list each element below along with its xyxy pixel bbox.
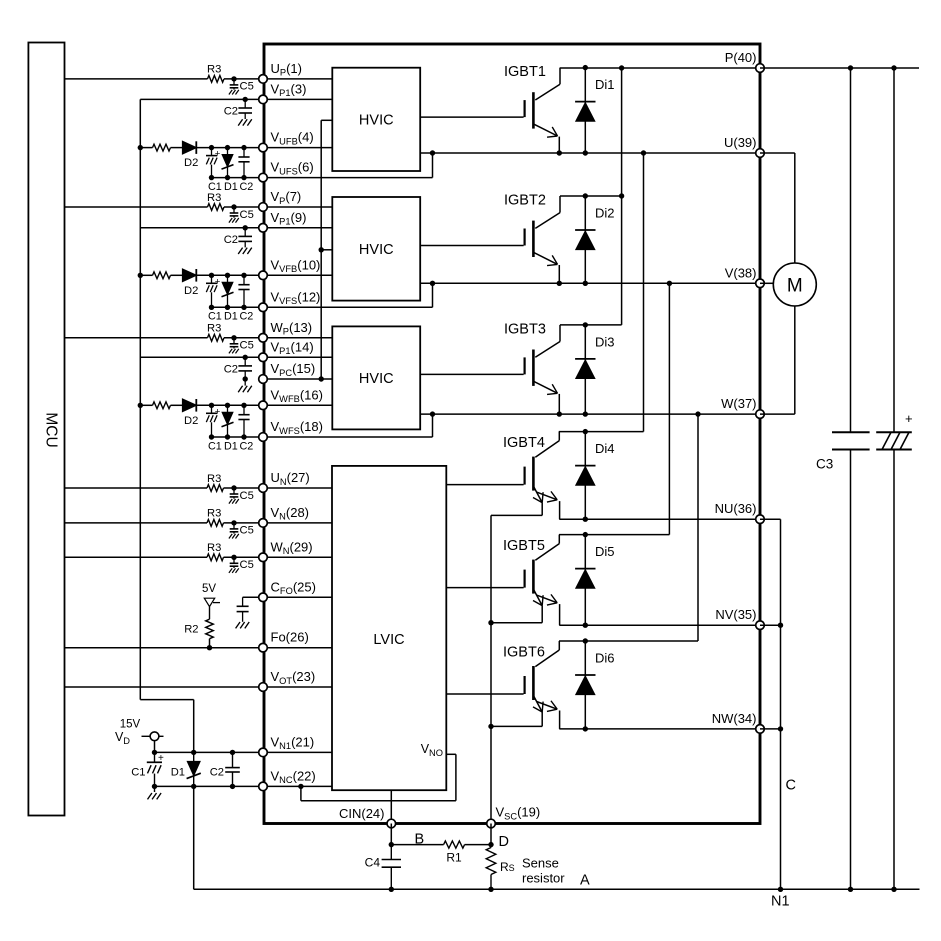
pin VP(7) (259, 203, 268, 212)
wire VP1 row to pin VP1(3) (140, 98, 263, 100)
junction Di4 anode (583, 517, 588, 522)
svg-text:VP1(14): VP1(14) (271, 339, 314, 356)
pin VWFB(16) (259, 401, 268, 410)
capacitor C4 (390, 845, 392, 860)
junction C2 tap (group 2) (243, 225, 248, 230)
pin VNC(22) (259, 782, 268, 791)
junction bottom col x211.5 (WFB group) (209, 434, 214, 439)
wire 15V bus vertical (139, 99, 141, 699)
wire bus to R (UFB row) (140, 147, 152, 149)
wire pin VVFB to HVIC2 (263, 274, 332, 276)
wire IGBT5 main emitter drop (559, 604, 561, 625)
junction Di6 cathode (583, 638, 588, 643)
svg-text:D1: D1 (224, 440, 238, 452)
svg-text:LVIC: LVIC (373, 632, 404, 648)
svg-text:C2: C2 (224, 105, 238, 117)
junction VSC bus / IGBT6 sense (488, 724, 493, 729)
ground (C5 VN row) (229, 534, 232, 539)
junction Di2 cathode (583, 193, 588, 198)
capacitor C5 (UP row) (233, 79, 235, 85)
wire IGBT6 sense emitter tail (541, 712, 543, 726)
svg-text:CFO(25): CFO(25) (271, 579, 316, 596)
capacitor C2 (group 3) (244, 357, 246, 365)
wire UFS row to pin VUFS(6) (212, 177, 264, 179)
junction D1 top on VN1 row (191, 750, 196, 755)
pin W(37) (756, 410, 765, 419)
wire MCU to R3 (WP row) (65, 337, 208, 339)
svg-text:C2: C2 (224, 234, 238, 246)
wire V rail (420, 282, 760, 284)
wire IGBT6 collector rail (559, 640, 698, 642)
junction bottom col x211.5 (VFB group) (209, 305, 214, 310)
ground (C5 UN row) (229, 499, 232, 504)
wire VN1 row external (155, 751, 264, 753)
svg-text:C1: C1 (208, 311, 222, 323)
pin VN(28) (259, 519, 268, 528)
diode Di3 (584, 325, 586, 414)
junction 15V bus / VFB row (138, 273, 143, 278)
wire 15V bus elbow horizontal (140, 699, 193, 701)
svg-text:VNC(22): VNC(22) (271, 768, 316, 785)
capacitor C5 (UN row) (233, 488, 235, 494)
svg-text:D2: D2 (184, 285, 198, 297)
svg-text:R3: R3 (207, 473, 221, 485)
capacitor C2 (UFB group, small) (243, 148, 245, 157)
wire NW(34) to C bus (760, 728, 781, 730)
wire bus to R (WFB row) (140, 404, 152, 406)
svg-text:Di5: Di5 (595, 544, 615, 559)
junction top col x227.5 (VFB group) (225, 273, 230, 278)
junction VUFS tap on U rail (430, 150, 435, 155)
wire U phase down to motor (794, 153, 796, 263)
svg-text:C5: C5 (240, 490, 254, 502)
junction VNC / VNO branch (298, 784, 303, 789)
junction top col x211.5 (VFB group) (209, 273, 214, 278)
svg-text:HVIC: HVIC (359, 242, 394, 258)
wire VPC bus vertical (320, 120, 322, 379)
wire VNO branch horizontal (301, 800, 456, 802)
wire pin VUFB to HVIC1 (263, 147, 332, 149)
svg-text:Di1: Di1 (595, 77, 615, 92)
wire IGBT4 main emitter drop (559, 501, 561, 519)
wire C3 branch lower (850, 450, 852, 890)
junction bottom col x244.0 (UFB group) (241, 175, 246, 180)
svg-text:Di4: Di4 (595, 441, 615, 456)
wire V drop to IGBT5 (668, 283, 670, 534)
svg-text:+: + (905, 411, 913, 426)
svg-text:R3: R3 (207, 192, 221, 204)
svg-text:IGBT3: IGBT3 (504, 321, 546, 337)
svg-text:UN(27): UN(27) (271, 470, 310, 487)
svg-text:R3: R3 (207, 323, 221, 335)
svg-text:HVIC: HVIC (359, 112, 394, 128)
ground (VPC row) (238, 386, 242, 392)
junction P rail / C3 (848, 65, 853, 70)
wire R to D2 (VFB row) (171, 274, 183, 276)
transistor IGBT6 (558, 641, 560, 650)
capacitor on CFO (242, 597, 244, 606)
svg-text:Sense: Sense (522, 856, 559, 871)
junction node D (488, 842, 493, 847)
svg-text:C2: C2 (240, 440, 254, 452)
junction VSC bus / IGBT5 sense (488, 620, 493, 625)
junction VPC bus / HVIC2 stub (319, 247, 324, 252)
ground (C5 WN row) (229, 568, 232, 573)
svg-text:MCU: MCU (43, 412, 60, 447)
wire VUFS tap vertical (432, 153, 434, 178)
svg-text:D: D (499, 834, 509, 850)
wire VD down to VN1 row (154, 741, 156, 753)
wire NV(35) to C bus (760, 624, 781, 626)
wire electrolytic branch lower (893, 450, 895, 890)
wire VVFS tap vertical (432, 283, 434, 307)
wire LVIC gate to IGBT6 (446, 693, 523, 695)
junction Di5 anode (583, 623, 588, 628)
ground (C5 UP row) (229, 90, 232, 95)
junction C2 top on VN1 row (230, 750, 235, 755)
svg-text:IGBT6: IGBT6 (503, 645, 545, 661)
junction bottom col x227.5 (VFB group) (225, 305, 230, 310)
wire P rail internal (560, 67, 760, 69)
svg-text:Di2: Di2 (595, 206, 615, 221)
junction C5 tap (WN row) (231, 555, 236, 560)
resistor R3 (UN row) (207, 485, 224, 492)
svg-text:M: M (787, 276, 803, 297)
wire B to R1 (391, 844, 443, 846)
IPM module outline (264, 44, 760, 824)
svg-text:IGBT5: IGBT5 (503, 538, 545, 554)
svg-text:C2: C2 (240, 311, 254, 323)
wire LVIC gate to IGBT4 (446, 484, 523, 486)
MCU block (28, 43, 64, 816)
svg-text:R2: R2 (184, 624, 198, 636)
wire U(39) to motor (760, 152, 795, 154)
junction C2 tap (group 3) (243, 355, 248, 360)
svg-text:5V: 5V (202, 583, 216, 595)
svg-text:+: + (215, 406, 221, 417)
junction bottom col x227.5 (UFB group) (225, 175, 230, 180)
junction top col x244.0 (UFB group) (241, 145, 246, 150)
resistor (UFB row, bootstrap) (153, 144, 171, 151)
wire VP1 row to pin VP1(9) (140, 227, 263, 229)
resistor (VFB row, bootstrap) (153, 272, 171, 279)
junction Di1 anode (583, 150, 588, 155)
pin UN(27) (259, 484, 268, 493)
wire IGBT4 sense emitter to VSC bus (491, 514, 542, 516)
svg-text:+: + (158, 753, 164, 764)
svg-text:R3: R3 (207, 542, 221, 554)
capacitor C2 (group 1) (244, 99, 246, 107)
wire R3 to pin VN(28) (224, 522, 264, 524)
junction P rail / drop (619, 65, 624, 70)
transistor IGBT5 (558, 535, 560, 544)
wire NU rail (559, 518, 760, 520)
wire R3 to pin VP(7) (224, 206, 263, 208)
IC HVIC1 (high-voltage gate driver) (332, 68, 420, 171)
wire MCU to R3 (VN row) (65, 522, 208, 524)
svg-text:R3: R3 (207, 508, 221, 520)
diode D2 (WFB row) (183, 399, 197, 412)
junction D1 bottom on VNC row (191, 784, 196, 789)
svg-text:D1: D1 (171, 767, 185, 779)
wire IGBT5 sense emitter tail (541, 606, 543, 623)
junction bottom rail / C3 (848, 887, 853, 892)
pin VP1(3) (259, 95, 268, 104)
svg-text:W(37): W(37) (721, 396, 756, 411)
pin P(40) (756, 64, 765, 73)
svg-text:R1: R1 (446, 851, 462, 865)
junction VPC bus / VPC row (319, 376, 324, 381)
wire VFS row to pin VVFS(12) (212, 306, 264, 308)
svg-text:+: + (215, 276, 221, 287)
svg-text:VP(7): VP(7) (271, 189, 302, 206)
motor M (773, 263, 816, 306)
svg-text:D2: D2 (184, 157, 198, 169)
zener diode D1 (VFB group) (227, 275, 229, 307)
capacitor electrolytic DC-link (876, 431, 912, 433)
wire 15V bus drop to VN1 (193, 700, 195, 753)
wire R3 to pin UP(1) (224, 78, 263, 80)
junction C2 bottom on VNC row (230, 784, 235, 789)
junction top col x244.0 (WFB group) (241, 403, 246, 408)
pin CFO(25) (259, 593, 268, 602)
junction IGBT1 emitter on rail (557, 150, 562, 155)
capacitor C1 (VFB group) (211, 275, 213, 283)
svg-text:Fo(26): Fo(26) (271, 630, 309, 645)
wire pin VP to HVIC2 (263, 206, 332, 208)
IC HVIC2 (high-voltage gate driver) (332, 197, 420, 301)
svg-text:VSC(19): VSC(19) (496, 805, 541, 822)
wire pin UN to LVIC (263, 487, 332, 489)
junction top col x227.5 (UFB group) (225, 145, 230, 150)
capacitor C5 (VP row) (233, 207, 235, 213)
ground (C5 VP row) (229, 218, 232, 223)
pin VWFS(18) (259, 433, 268, 442)
wire MCU to pin Fo(26) (65, 647, 264, 649)
svg-text:P(40): P(40) (725, 50, 757, 65)
pin NV(35) (756, 621, 765, 630)
wire U drop to IGBT4 (643, 153, 645, 432)
transistor IGBT3 (559, 325, 561, 342)
wire VWFS tap vertical (432, 414, 434, 437)
wire MCU to R3 (WN row) (65, 556, 208, 558)
pin VVFB(10) (259, 271, 268, 280)
svg-text:C2: C2 (210, 767, 224, 779)
wire P drop to IGBT2/3 (621, 68, 623, 325)
wire MCU to pin VOT(23) (65, 686, 264, 688)
wire R1 to D (465, 844, 491, 846)
diode D2 (UFB row) (183, 141, 197, 154)
svg-text:A: A (580, 873, 590, 889)
wire IGBT6 main emitter drop (559, 711, 561, 729)
resistor (WFB row, bootstrap) (153, 402, 171, 409)
wire C3 branch upper (850, 68, 852, 432)
capacitor C1 (UFB group) (211, 148, 213, 156)
resistor R3 (WN row) (207, 554, 224, 561)
wire CFO pin to filter cap (243, 596, 263, 598)
wire pin UP to HVIC1 (263, 78, 332, 80)
wire HVIC gate to IGBT1 (420, 116, 523, 118)
wire W phase up to motor (794, 306, 796, 414)
wire VP1 row to pin VP1(14) (140, 356, 263, 358)
pin VP1(9) (259, 224, 268, 233)
wire VNC drop to bottom rail (193, 786, 195, 889)
transistor IGBT4 (558, 432, 560, 441)
wire D2 to pin VUFB(4) (196, 147, 263, 149)
junction Di2 anode (583, 281, 588, 286)
junction NW / C bus (778, 726, 783, 731)
svg-text:resistor: resistor (522, 871, 565, 886)
wire HVIC1 VPC stub (321, 119, 332, 121)
wire D2 to pin VVFB(10) (196, 274, 263, 276)
junction bottom col x244.0 (VFB group) (241, 305, 246, 310)
junction VWFS tap on W rail (430, 411, 435, 416)
wire P(40) to DC bus (760, 67, 919, 69)
IC LVIC (low-voltage gate driver) (332, 466, 446, 790)
svg-text:C2: C2 (240, 181, 254, 193)
svg-text:Di3: Di3 (595, 334, 615, 349)
svg-text:15V: 15V (120, 719, 141, 731)
wire pin VP1(14) to HVIC3 (263, 356, 332, 358)
junction top col x211.5 (WFB group) (209, 403, 214, 408)
wire R3 to pin UN(27) (224, 487, 264, 489)
wire VNO branch down (300, 786, 302, 800)
wire VNC row external (155, 785, 264, 787)
transistor IGBT2 (559, 196, 561, 213)
svg-text:HVIC: HVIC (359, 371, 394, 387)
wire pin VN1 to LVIC (263, 751, 332, 753)
wire VNO branch up (455, 754, 457, 800)
junction bottom col x211.5 (UFB group) (209, 175, 214, 180)
wire IGBT2 collector rail (560, 195, 622, 197)
svg-text:D2: D2 (184, 415, 198, 427)
wire MCU to R3 (UP row) (65, 78, 208, 80)
svg-text:UP(1): UP(1) (271, 61, 302, 78)
capacitor C2 (15V rail) (232, 752, 234, 767)
svg-text:C3: C3 (816, 457, 833, 472)
junction U rail / U drop (641, 150, 646, 155)
svg-text:+: + (215, 149, 221, 160)
svg-text:C1: C1 (131, 767, 145, 779)
wire R2 to Fo row (209, 639, 211, 648)
wire C bus vertical (780, 519, 782, 889)
wire MCU to R3 (VP row) (65, 206, 208, 208)
wire 5V to R2 (209, 607, 211, 620)
junction Rs / bottom rail (488, 887, 493, 892)
resistor R1 (444, 841, 465, 848)
wire R3 to pin WN(29) (224, 556, 264, 558)
terminal VD (15V source) (142, 735, 151, 737)
junction C2 bottom on VPC row (243, 376, 248, 381)
ground (15V rail) (148, 793, 152, 799)
capacitor C2 (group 2) (244, 228, 246, 236)
wire pin Fo to LVIC (263, 647, 332, 649)
resistor Rs (shunt) (490, 845, 492, 848)
zener diode D1 (UFB group) (227, 148, 229, 178)
diode D2 (VFB row) (183, 269, 197, 282)
svg-text:NV(35): NV(35) (715, 607, 756, 622)
wire U rail (420, 152, 760, 154)
junction C5 tap (UN row) (231, 485, 236, 490)
svg-text:C5: C5 (240, 525, 254, 537)
svg-text:IGBT2: IGBT2 (504, 193, 546, 209)
wire NW rail (559, 728, 760, 730)
junction C4 / bottom rail (389, 887, 394, 892)
junction top col x244.0 (VFB group) (241, 273, 246, 278)
pin VN1(21) (259, 748, 268, 757)
pin VPC(15) (259, 375, 268, 384)
junction Di5 cathode (583, 532, 588, 537)
junction V rail / V drop (667, 281, 672, 286)
svg-text:D1: D1 (224, 181, 238, 193)
resistor R3 (WP row) (208, 334, 225, 341)
junction C5 tap (WP row) (231, 335, 236, 340)
pin VP1(14) (259, 353, 268, 362)
capacitor C5 (WN row) (233, 557, 235, 563)
pin Fo(26) (259, 643, 268, 652)
wire IGBT2 emitter drop (558, 265, 560, 283)
IC HVIC3 (high-voltage gate driver) (332, 326, 420, 429)
wire pin VNC to LVIC (263, 785, 332, 787)
wire W(37) to motor (760, 413, 795, 415)
svg-text:C5: C5 (240, 559, 254, 571)
wire NU(36) to C bus (760, 518, 781, 520)
wire pin VWFS tap horizontal (263, 436, 433, 438)
svg-text:VN(28): VN(28) (271, 505, 310, 522)
junction node B (389, 842, 394, 847)
wire HVIC gate to IGBT3 (420, 373, 523, 375)
svg-text:R3: R3 (207, 64, 221, 76)
svg-text:C5: C5 (240, 81, 254, 93)
zener diode D1 (WFB group) (227, 405, 229, 437)
wire HVIC gate to IGBT2 (420, 245, 523, 247)
wire pin CFO to LVIC (263, 596, 332, 598)
capacitor C5 (VN row) (233, 523, 235, 529)
resistor R3 (VN row) (207, 520, 224, 527)
junction P rail / electrolytic (891, 65, 896, 70)
pin NU(36) (756, 515, 765, 524)
wire pin VWFB to HVIC3 (263, 404, 332, 406)
junction C5 tap (VP row) (231, 204, 236, 209)
wire HVIC2 VPC stub (321, 249, 332, 251)
svg-text:N1: N1 (771, 894, 790, 910)
svg-text:V(38): V(38) (725, 265, 757, 280)
diode Di5 (584, 535, 586, 626)
capacitor C2 (WFB group, small) (243, 405, 245, 414)
wire pin VVFS tap horizontal (263, 306, 433, 308)
junction R2 / Fo row (207, 645, 212, 650)
diode Di4 (584, 432, 586, 520)
transistor IGBT1 (559, 68, 561, 85)
junction Di6 anode (583, 726, 588, 731)
pin V(38) (756, 279, 765, 288)
ground (C5 WP row) (229, 349, 232, 354)
junction IGBT2 emitter on rail (557, 281, 562, 286)
svg-text:C5: C5 (240, 340, 254, 352)
wire IGBT1 emitter drop (558, 137, 560, 153)
wire IGBT4 sense emitter tail (541, 503, 543, 516)
junction Di3 cathode (583, 322, 588, 327)
resistor R3 (VP row) (208, 204, 225, 211)
wire VNO branch to LVIC (446, 753, 456, 755)
junction Di3 anode (583, 411, 588, 416)
capacitor C1 (15V rail) (154, 752, 156, 762)
wire V(38) to motor (760, 282, 773, 284)
capacitor C5 (WP row) (233, 338, 235, 344)
junction bottom col x244.0 (WFB group) (241, 434, 246, 439)
svg-text:IGBT1: IGBT1 (504, 64, 546, 80)
wire electrolytic branch upper (893, 68, 895, 432)
